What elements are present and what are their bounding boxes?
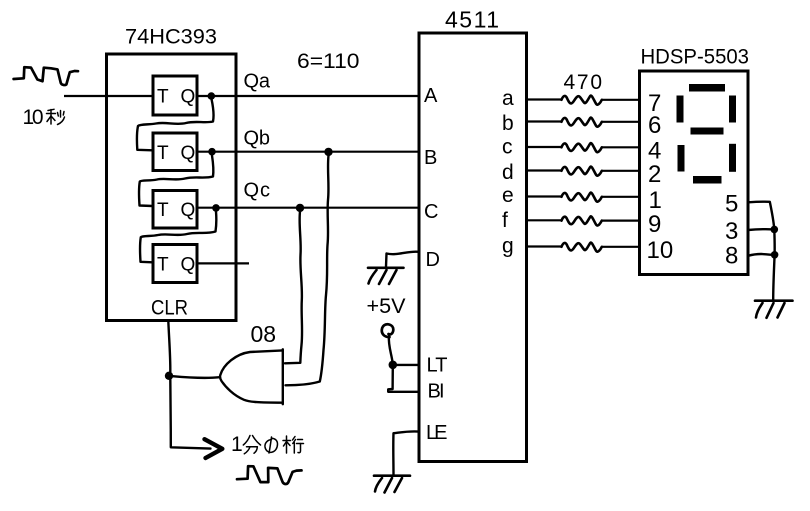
node FF2 Q junction xyxy=(208,148,216,156)
svg-text:2: 2 xyxy=(648,161,661,188)
node pin8 junction xyxy=(771,251,779,259)
svg-text:3: 3 xyxy=(725,218,738,245)
svg-text:c: c xyxy=(502,136,513,159)
resistor R-b xyxy=(527,120,562,122)
arrow head to next stage xyxy=(205,439,223,458)
wire common to ground xyxy=(773,255,774,300)
resistor R-a 470 and wires xyxy=(527,98,562,100)
node FF1 Q junction xyxy=(208,92,216,100)
svg-text:74HC393: 74HC393 xyxy=(125,26,217,49)
ground display common xyxy=(755,301,793,318)
svg-text:B: B xyxy=(424,147,437,169)
svg-text:9: 9 xyxy=(648,211,661,238)
wire CLR to AND output node xyxy=(168,321,170,373)
svg-text:g: g xyxy=(502,235,514,258)
svg-text:LT: LT xyxy=(427,355,448,377)
kanji の xyxy=(265,437,278,453)
wire common between junctions xyxy=(773,229,776,254)
svg-text:C: C xyxy=(424,201,438,223)
wire +5V to LT node xyxy=(389,336,393,362)
svg-text:Q: Q xyxy=(181,143,196,164)
node Qc branch junction xyxy=(296,204,304,212)
resistor R-e xyxy=(527,195,562,197)
svg-text:1: 1 xyxy=(231,433,243,456)
svg-text:6: 6 xyxy=(648,112,661,139)
svg-text:BI: BI xyxy=(428,381,445,403)
wire feedback FF2 Q to FF3 T xyxy=(139,156,213,207)
svg-text:Q: Q xyxy=(181,200,196,221)
wire AND output to CLR node xyxy=(173,376,221,378)
IC U4 HDSP-5503 box xyxy=(640,71,749,275)
svg-text:Q: Q xyxy=(181,255,196,276)
svg-text:T: T xyxy=(157,200,169,221)
IC U3 4511 box xyxy=(419,33,527,462)
kanji 桁 xyxy=(283,436,304,453)
svg-text:10: 10 xyxy=(647,237,674,264)
node CLR junction xyxy=(165,372,173,380)
kanji 分 xyxy=(243,436,260,454)
svg-text:HDSP-5503: HDSP-5503 xyxy=(641,46,750,69)
svg-text:Q: Q xyxy=(181,87,196,108)
resistor R-d xyxy=(527,169,562,171)
node FF3 Q junction xyxy=(212,204,220,212)
ground near D xyxy=(368,268,404,284)
wire D input to ground xyxy=(386,252,419,267)
svg-text:T: T xyxy=(157,255,169,276)
wire QD stub xyxy=(197,262,249,264)
wire pin3 to common xyxy=(748,228,774,231)
resistor R-f xyxy=(527,219,562,221)
svg-text:b: b xyxy=(502,112,514,135)
wire Qc branch down to AND input 1 xyxy=(285,212,302,364)
svg-text:6=110: 6=110 xyxy=(297,50,360,73)
svg-text:+5V: +5V xyxy=(367,295,406,318)
svg-text:T: T xyxy=(157,87,169,108)
wire clock input to FF1 T xyxy=(64,95,153,97)
svg-text:D: D xyxy=(426,249,440,271)
segment d xyxy=(693,176,722,184)
svg-text:Qb: Qb xyxy=(244,128,271,150)
wire Qb row FF2 out to 4511 B xyxy=(197,151,419,153)
svg-text:a: a xyxy=(502,87,514,110)
wire pin8 to common xyxy=(748,254,775,256)
svg-text:T: T xyxy=(157,143,169,164)
wire feedback FF1 Q to FF2 T xyxy=(137,99,214,150)
AND gate U2 74HC08 (mirrored, output left) xyxy=(282,349,284,404)
svg-text:A: A xyxy=(424,85,438,107)
svg-text:4511: 4511 xyxy=(445,7,499,33)
flip-flop FF1 box xyxy=(153,76,197,115)
kanji 秒 (byou) xyxy=(47,109,65,124)
wire Qa row FF1 out to 4511 A xyxy=(197,95,419,97)
wire feedback FF3 Q to FF4 T xyxy=(140,212,216,263)
wire pin5 to common xyxy=(748,202,774,230)
segment f xyxy=(677,96,684,123)
clock waveform input (10s) xyxy=(14,67,78,85)
wire LT xyxy=(393,364,419,366)
7-segment digit: segment a xyxy=(689,84,725,92)
+5V tap loop xyxy=(382,324,394,337)
wire CLR node down to arrow xyxy=(170,378,210,449)
flip-flop FF4 box xyxy=(153,245,197,283)
segment e xyxy=(678,145,685,172)
clock waveform output (1 min) xyxy=(237,466,302,484)
ground near LE xyxy=(374,476,410,493)
segment b xyxy=(729,96,736,123)
wire Qc row FF3 out to 4511 C xyxy=(197,207,419,209)
node Qb branch junction xyxy=(324,148,332,156)
svg-text:08: 08 xyxy=(251,321,277,347)
svg-text:10: 10 xyxy=(23,106,44,129)
IC U1 74HC393 outline box xyxy=(107,54,237,321)
resistor R-g xyxy=(527,245,562,247)
svg-text:d: d xyxy=(502,161,514,184)
svg-text:e: e xyxy=(502,184,514,207)
flip-flop FF3 box xyxy=(153,191,197,229)
svg-text:Qc: Qc xyxy=(244,180,271,202)
segment c xyxy=(729,144,736,172)
svg-text:LE: LE xyxy=(426,422,448,444)
node LT junction xyxy=(389,361,398,370)
svg-text:8: 8 xyxy=(725,243,738,270)
svg-text:5: 5 xyxy=(725,191,738,218)
svg-text:f: f xyxy=(502,209,508,232)
wire LE to ground xyxy=(393,431,419,474)
flip-flop FF2 box xyxy=(153,133,197,171)
svg-text:Qa: Qa xyxy=(244,71,271,93)
svg-text:470: 470 xyxy=(564,71,603,94)
node pin3 junction xyxy=(771,226,779,234)
wire node down to BI xyxy=(388,367,419,392)
segment g xyxy=(691,128,724,135)
wire Qb branch down to AND input 2 xyxy=(286,156,329,386)
svg-text:CLR: CLR xyxy=(151,297,188,320)
resistor R-c xyxy=(527,146,562,148)
svg-text:1: 1 xyxy=(649,187,662,214)
